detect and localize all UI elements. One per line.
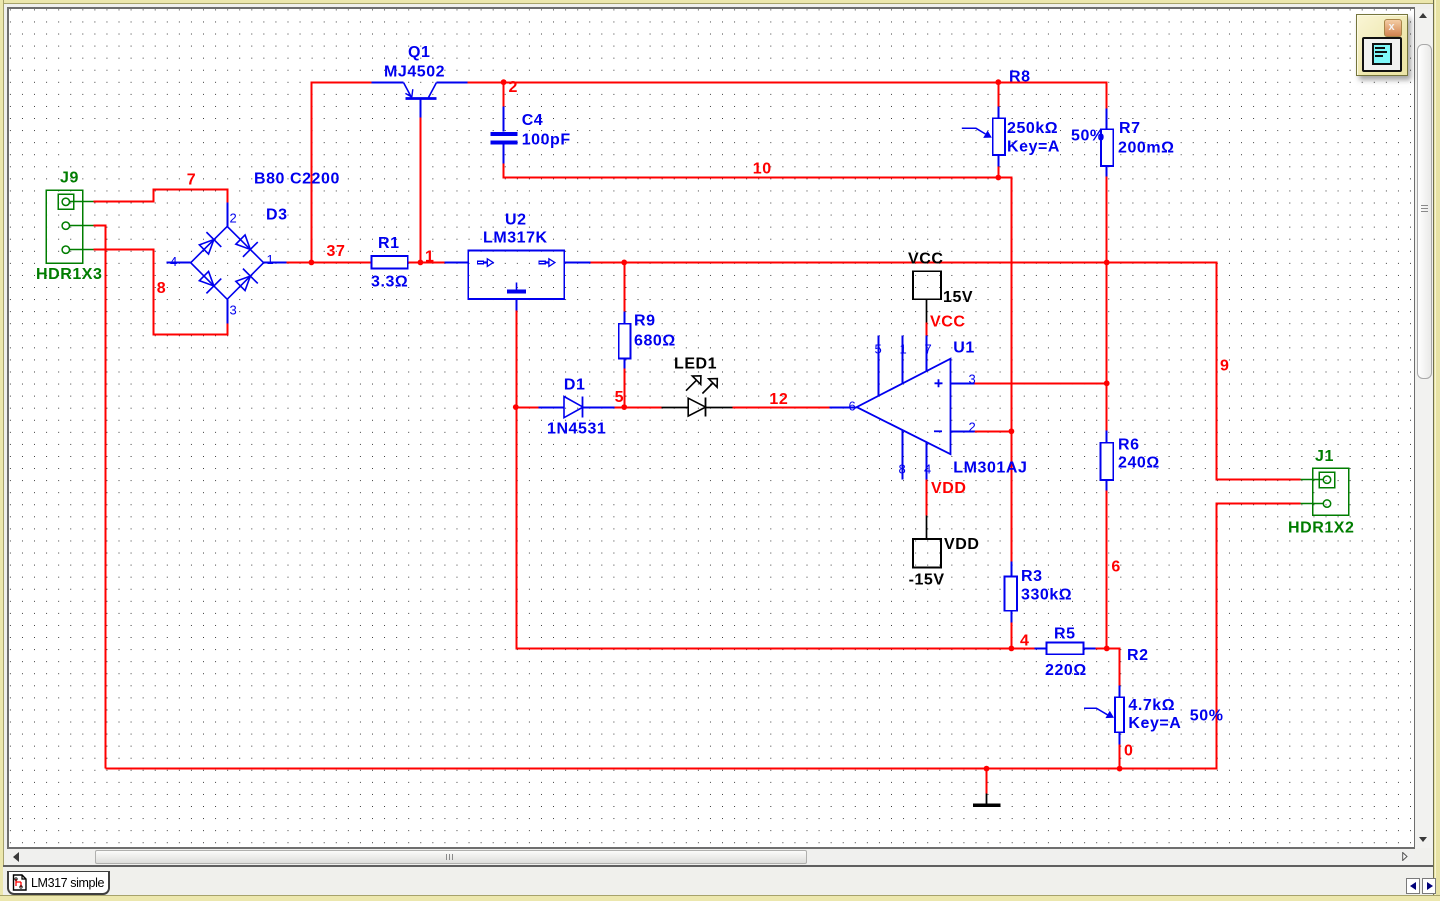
- op-amp pin5 stub: [878, 336, 880, 396]
- svg-text:15V: 15V: [943, 289, 973, 306]
- resistor R6 240ohm: [1100, 443, 1113, 480]
- wire node4 to R5: [1012, 648, 1035, 650]
- list icon button: [1362, 37, 1402, 72]
- svg-text:5: 5: [875, 342, 882, 357]
- horizontal scrollbar: [9, 849, 1414, 864]
- junction R7 bottom output line: [1104, 260, 1110, 266]
- svg-text:VCC: VCC: [930, 314, 965, 331]
- wire net 37 bridge out to R1: [287, 262, 372, 264]
- svg-text:6: 6: [849, 399, 856, 414]
- svg-text:R6: R6: [1118, 437, 1140, 454]
- wire U2 adj down and across bottom to node 4: [517, 311, 1012, 649]
- svg-text:Q1: Q1: [408, 44, 430, 61]
- op-amp pin3 stub: [951, 383, 975, 385]
- outer window beige frame: [0, 0, 1440, 4]
- ground: [973, 794, 1001, 808]
- op-amp pin7 stub: [926, 336, 928, 371]
- svg-text:240Ω: 240Ω: [1118, 455, 1160, 472]
- svg-text:6: 6: [1111, 559, 1120, 576]
- junction ground node: [984, 766, 990, 772]
- svg-text:J9: J9: [60, 170, 79, 187]
- svg-text:4: 4: [924, 462, 931, 477]
- svg-text:HDR1X2: HDR1X2: [1288, 520, 1354, 537]
- wire node2 top rail to R7: [504, 83, 1107, 109]
- junction R2 bottom: [1117, 766, 1123, 772]
- close button: [1384, 19, 1402, 37]
- svg-text:R2: R2: [1127, 647, 1149, 664]
- bridge pin 4 stub: [167, 262, 191, 264]
- R8 wiper arrow: [962, 128, 992, 138]
- svg-text:200mΩ: 200mΩ: [1118, 140, 1175, 157]
- wire ground stub: [986, 769, 988, 794]
- svg-text:250kΩ: 250kΩ: [1007, 120, 1058, 137]
- wire R9 top pin from output line: [624, 263, 626, 312]
- svg-text:8: 8: [899, 462, 906, 477]
- wire Q1 base down to node 1: [420, 118, 422, 263]
- op-amp pin8 stub: [902, 430, 904, 480]
- svg-text:Key=A: Key=A: [1007, 139, 1060, 156]
- connector J9 HDR1X3: [46, 190, 93, 263]
- junction R8 bottom net10: [995, 175, 1001, 181]
- bridge diode top-right: [233, 232, 258, 257]
- svg-text:VDD: VDD: [944, 536, 979, 553]
- svg-text:LM301AJ: LM301AJ: [953, 460, 1027, 477]
- svg-text:100pF: 100pF: [522, 132, 571, 149]
- resistor R9 680ohm: [619, 324, 631, 359]
- bridge pin 2 stub: [227, 203, 229, 227]
- wire R6 bottom pin: [1106, 491, 1108, 649]
- svg-text:R7: R7: [1119, 120, 1141, 137]
- wire R3 bottom to node 4: [1011, 623, 1013, 649]
- svg-text:LM317K: LM317K: [483, 230, 548, 247]
- op-amp plus sign: [935, 379, 943, 387]
- svg-text:-15V: -15V: [909, 572, 945, 589]
- bridge pin 3 stub: [227, 300, 229, 324]
- resistor R5 220ohm: [1047, 643, 1084, 655]
- op-amp pin2 stub: [951, 431, 975, 433]
- bridge diode top-left: [197, 232, 222, 257]
- wire R8 top pin: [998, 83, 1000, 107]
- svg-text:R9: R9: [634, 313, 656, 330]
- bridge diode bottom-left: [197, 269, 222, 294]
- LED1: [662, 376, 733, 417]
- junction node 37: [309, 260, 315, 266]
- svg-text:50%: 50%: [1071, 128, 1105, 145]
- svg-text:1N4531: 1N4531: [547, 421, 606, 438]
- potentiometer R2 4.7k: [1115, 697, 1124, 732]
- wire J9 pin2 down left side to bottom rail: [94, 226, 106, 769]
- svg-text:3: 3: [230, 303, 237, 318]
- junction D1 left: [513, 404, 519, 410]
- svg-text:MJ4502: MJ4502: [384, 64, 445, 81]
- sheet nav buttons: [1406, 878, 1420, 894]
- svg-text:LED1: LED1: [674, 356, 717, 373]
- wire op-amp pin3 to node 9 column: [975, 383, 1107, 385]
- svg-text:R8: R8: [1009, 69, 1031, 86]
- wire op-amp pin2 stub: [975, 431, 1012, 433]
- junction node 4: [1009, 646, 1015, 652]
- R2 wiper arrow: [1084, 708, 1114, 718]
- resistor R3 330k: [1005, 576, 1017, 610]
- wire Q1 collector to node 2: [468, 82, 504, 84]
- transistor Q1 MJ4502: [372, 83, 468, 118]
- svg-text:C4: C4: [522, 112, 544, 129]
- tab page icon: [12, 874, 28, 891]
- wire VDD source pin red part: [926, 480, 928, 516]
- wire main output line to J1 pin1: [591, 263, 1301, 480]
- svg-text:2: 2: [969, 420, 976, 435]
- svg-text:B80 C2200: B80 C2200: [254, 171, 340, 188]
- VDD power source -15V: [913, 516, 941, 568]
- wire R9 bottom to node 5: [624, 369, 626, 408]
- junction pin2 at net10 column: [1009, 428, 1015, 434]
- junction node 1: [418, 260, 424, 266]
- junction R5 right: [1104, 646, 1110, 652]
- svg-text:3: 3: [969, 372, 976, 387]
- regulator U2 LM317K: [445, 250, 591, 310]
- wire net 12 LED1 to op-amp pin6: [733, 407, 831, 409]
- svg-text:680Ω: 680Ω: [634, 333, 676, 350]
- svg-text:37: 37: [327, 243, 346, 260]
- svg-text:330kΩ: 330kΩ: [1021, 587, 1072, 604]
- bridge diode bottom-right: [233, 269, 258, 294]
- potentiometer R8 250k: [993, 118, 1005, 155]
- wire VCC source pin red part: [926, 323, 928, 336]
- svg-text:R1: R1: [378, 235, 400, 252]
- svg-text:10: 10: [753, 161, 772, 178]
- svg-text:HDR1X3: HDR1X3: [36, 266, 102, 283]
- svg-text:2: 2: [230, 211, 237, 226]
- sheet tab bar: [3, 867, 1433, 895]
- svg-text:J1: J1: [1315, 448, 1334, 465]
- wire net 7 J9 pin1 to bridge top: [94, 190, 228, 203]
- resistor R7 200m: [1101, 129, 1113, 166]
- svg-text:12: 12: [769, 391, 788, 408]
- wire R1 to U2 input: [408, 262, 445, 264]
- svg-text:R5: R5: [1054, 626, 1076, 643]
- wire R6 top pin from output line: [1106, 263, 1108, 431]
- svg-text:1: 1: [900, 342, 907, 357]
- svg-text:220Ω: 220Ω: [1045, 662, 1087, 679]
- svg-text:VCC: VCC: [908, 251, 943, 268]
- separator line above tab bar: [3, 865, 1433, 867]
- svg-text:U2: U2: [505, 212, 527, 229]
- junction pin3 line at R6 column: [1104, 380, 1110, 386]
- connector J1 HDR1X2: [1301, 468, 1349, 515]
- op-amp U1 LM301AJ: [830, 336, 975, 480]
- wire R7 bottom to output line: [1106, 177, 1108, 263]
- floating in-use-list mini window: [1356, 14, 1408, 76]
- wire net 8 J9 pin3 to bridge bottom: [94, 250, 228, 335]
- junction node 2: [501, 79, 507, 85]
- bridge pin 1 stub: [264, 262, 287, 264]
- svg-text:Key=A: Key=A: [1128, 715, 1181, 732]
- svg-text:D1: D1: [564, 377, 586, 394]
- op-amp minus sign: [934, 430, 942, 432]
- svg-text:7: 7: [925, 342, 932, 357]
- diode bridge D3 B80 C2200: [167, 203, 287, 324]
- junction R9 top: [621, 260, 627, 266]
- svg-text:7: 7: [187, 172, 196, 189]
- svg-text:50%: 50%: [1190, 708, 1224, 725]
- op-amp pin6 stub: [830, 407, 857, 409]
- diode D1 1N4531: [539, 397, 615, 418]
- svg-text:4: 4: [1020, 633, 1029, 650]
- svg-text:2: 2: [509, 79, 518, 96]
- svg-text:VDD: VDD: [931, 480, 966, 497]
- svg-text:U1: U1: [953, 340, 975, 357]
- svg-text:D3: D3: [266, 207, 288, 224]
- svg-text:R3: R3: [1021, 568, 1043, 585]
- svg-text:1: 1: [425, 249, 434, 266]
- op-amp pin4 stub: [926, 442, 928, 480]
- wire net 0 R2 bottom to rail: [1119, 745, 1121, 769]
- wire R5 to R6 column: [1096, 648, 1107, 650]
- junction R8 top: [995, 79, 1001, 85]
- svg-text:3.3Ω: 3.3Ω: [371, 274, 408, 291]
- svg-text:9: 9: [1220, 358, 1229, 375]
- svg-text:0: 0: [1124, 743, 1133, 760]
- wire bottom ground rail up to J1 pin2: [106, 504, 1301, 769]
- capacitor C4 100pF: [490, 132, 517, 145]
- svg-text:4.7kΩ: 4.7kΩ: [1128, 697, 1175, 714]
- wire net 10 C4 bottom across to op-amp pin2 column: [504, 164, 1012, 432]
- svg-text:8: 8: [157, 280, 166, 297]
- svg-text:4: 4: [170, 254, 177, 269]
- junction node 5: [621, 404, 627, 410]
- wire D1 to LED1: [615, 407, 662, 409]
- resistor R1 3.3ohm: [372, 256, 408, 269]
- wire node to D1: [517, 407, 539, 409]
- VCC power source 15V: [913, 271, 941, 322]
- wire net 6 to R2 pot top: [1107, 649, 1120, 686]
- op-amp pin1 stub: [902, 336, 904, 384]
- wire R8 bottom pin: [998, 155, 1000, 178]
- svg-text:1: 1: [267, 252, 274, 267]
- wire R3 top pin: [1011, 432, 1013, 562]
- svg-text:5: 5: [615, 389, 624, 406]
- vertical scrollbar: [1416, 9, 1432, 848]
- wire node37 up to Q1 emitter: [312, 83, 372, 263]
- wire node2 down to C4: [503, 83, 505, 107]
- tab LM317 simple: [7, 871, 110, 895]
